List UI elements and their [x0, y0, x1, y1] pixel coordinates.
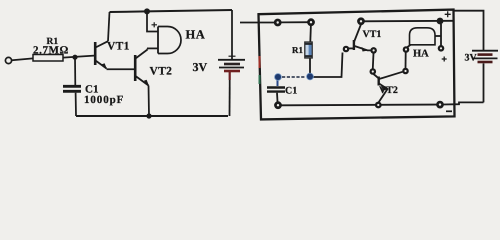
wire top bus right segment [361, 20, 453, 23]
transistor VT1 [94, 42, 97, 65]
buzzer HA outline [410, 28, 436, 45]
capacitor C1 lead top [74, 57, 76, 85]
tick on battery riser [229, 55, 236, 57]
arrow VT2 emitter (layout) [382, 86, 388, 91]
wire top rail [110, 10, 233, 12]
battery BT plates [218, 59, 245, 61]
node blue C1 top [275, 74, 282, 81]
wire buzzer feed top [147, 11, 158, 31]
svg-text:HA: HA [186, 28, 206, 42]
svg-text:VT2: VT2 [379, 85, 398, 96]
transistor VT1 base stub [349, 47, 354, 49]
minus mark bottom right [446, 110, 452, 112]
transistor VT1 collector lead [354, 23, 362, 42]
svg-text:C1: C1 [285, 86, 297, 97]
arrow VT1 emitter [102, 63, 107, 69]
input terminal circle [5, 57, 11, 63]
wire battery stem top [454, 11, 484, 51]
wire C1 bottom lead [276, 93, 279, 102]
wire bus exit to battery [443, 102, 484, 104]
wire R1 to VT1 base [63, 56, 94, 58]
wire VT2 collector dot to HA riser [405, 53, 407, 69]
wire R1 node to VT1 base riser [313, 53, 343, 78]
red mark on border [259, 56, 261, 68]
buzzer HA [157, 27, 159, 54]
wire VT2 collector riser [147, 48, 149, 49]
svg-text:VT1: VT1 [363, 29, 382, 40]
plus mark top right [442, 11, 451, 61]
capacitor C1 plates [63, 85, 81, 88]
node ring probe [274, 17, 445, 109]
capacitor C1 lead bottom [75, 93, 77, 116]
plus mark near HA [442, 57, 447, 62]
transistor VT1 emitter [355, 46, 372, 50]
wire HA right stub [435, 35, 441, 37]
wire R1 bottom lead [309, 58, 311, 73]
wire buzzer feed bottom [147, 47, 158, 49]
wire input to R1 [12, 58, 33, 60]
wire bottom rail [76, 115, 228, 117]
svg-text:2.7MΩ: 2.7MΩ [33, 45, 69, 57]
transistor VT1 bar [353, 40, 355, 50]
arrow VT2 emitter [144, 80, 149, 86]
svg-text:1000pF: 1000pF [84, 94, 124, 106]
wire HA right riser [440, 24, 442, 46]
capacitor C1 plates [267, 86, 285, 88]
wire C1 top lead (blue) [277, 80, 279, 86]
node VT2 emitter on rail [146, 113, 151, 118]
wire VT1 emitter to VT2 base [107, 68, 135, 70]
transistor VT2 emitter [379, 84, 388, 103]
board border [259, 10, 455, 120]
wire VT1 emitter to VT2 riser [372, 53, 375, 69]
svg-text:R1: R1 [292, 45, 303, 55]
wire probe input [240, 22, 274, 24]
wire VT1 collector riser [108, 12, 110, 41]
transistor VT2 base stub [374, 74, 379, 78]
resistor R1 body (layout) [305, 42, 312, 58]
wire battery riser [231, 10, 233, 60]
resistor R1 [33, 55, 63, 62]
wire base bus from C1 node to R1 node [282, 76, 306, 78]
node buzzer tap [144, 8, 150, 14]
transistor VT2 bar [378, 77, 380, 86]
svg-text:HA: HA [413, 49, 429, 60]
transistor VT2 collector [379, 72, 403, 79]
transistor VT2 [134, 55, 137, 81]
node junction C1 tap [72, 55, 77, 60]
wire HA left stub [408, 45, 411, 47]
wire battery stem [229, 72, 231, 80]
wire VT2 emitter riser [148, 86, 151, 117]
green mark on border [259, 75, 261, 84]
svg-text:VT2: VT2 [150, 66, 173, 78]
node blue R1 bottom [307, 73, 314, 80]
svg-text:VT1: VT1 [107, 41, 130, 53]
wire battery stem bottom [483, 63, 485, 102]
white centers of ring nodes [277, 20, 443, 106]
wire R1 top lead [309, 22, 312, 42]
battery GB plates [472, 50, 498, 52]
svg-text:3V: 3V [465, 53, 478, 64]
plus mark buzzer [152, 22, 158, 27]
wire top-left to R1 [281, 21, 311, 23]
wire bottom bus [282, 104, 438, 107]
arrow VT1 emitter (layout) [362, 47, 368, 52]
svg-text:3V: 3V [193, 60, 208, 74]
